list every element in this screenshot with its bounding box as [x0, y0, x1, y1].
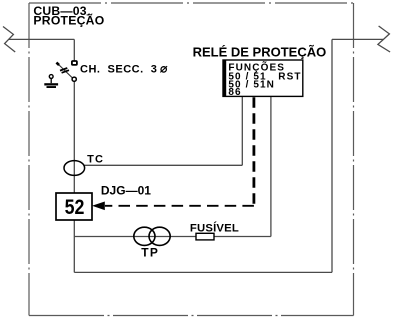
svg-text:CH. SECC. 3: CH. SECC. 3 [80, 64, 157, 76]
svg-text:52: 52 [65, 196, 85, 219]
svg-text:RELÉ DE PROTEÇÃO: RELÉ DE PROTEÇÃO [193, 44, 327, 59]
svg-text:TP: TP [141, 246, 159, 260]
svg-text:PROTEÇÃO: PROTEÇÃO [33, 12, 104, 27]
svg-text:FUSÍVEL: FUSÍVEL [190, 222, 239, 235]
svg-text:TC: TC [87, 153, 104, 165]
svg-text:86: 86 [228, 87, 241, 98]
svg-text:DJG—01: DJG—01 [101, 184, 151, 198]
